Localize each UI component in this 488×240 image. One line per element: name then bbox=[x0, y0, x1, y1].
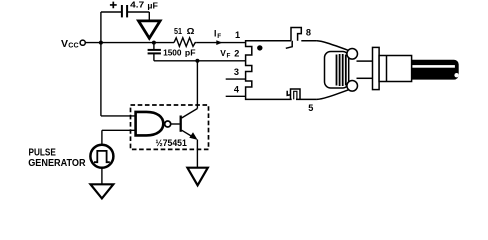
svg-text:Ω: Ω bbox=[187, 26, 195, 36]
svg-text:1: 1 bbox=[235, 30, 240, 40]
svg-text:51: 51 bbox=[174, 26, 182, 36]
svg-text:GENERATOR: GENERATOR bbox=[28, 158, 86, 169]
svg-text:2: 2 bbox=[234, 49, 239, 59]
svg-text:8: 8 bbox=[306, 27, 311, 37]
svg-text:1500: 1500 bbox=[163, 48, 182, 58]
svg-text:F: F bbox=[227, 53, 231, 60]
svg-text:4: 4 bbox=[234, 84, 240, 94]
svg-text:PULSE: PULSE bbox=[29, 147, 56, 158]
svg-text:5: 5 bbox=[308, 103, 313, 113]
svg-text:V: V bbox=[61, 38, 68, 50]
svg-text:V: V bbox=[220, 48, 226, 58]
svg-text:F: F bbox=[217, 33, 221, 40]
svg-text:CC: CC bbox=[68, 41, 79, 50]
svg-text:pF: pF bbox=[185, 48, 196, 58]
svg-text:I: I bbox=[214, 28, 216, 38]
svg-text:½75451: ½75451 bbox=[156, 138, 187, 148]
svg-text:3: 3 bbox=[234, 67, 239, 77]
svg-text:µF: µF bbox=[147, 1, 158, 11]
svg-text:4.7: 4.7 bbox=[130, 0, 144, 10]
